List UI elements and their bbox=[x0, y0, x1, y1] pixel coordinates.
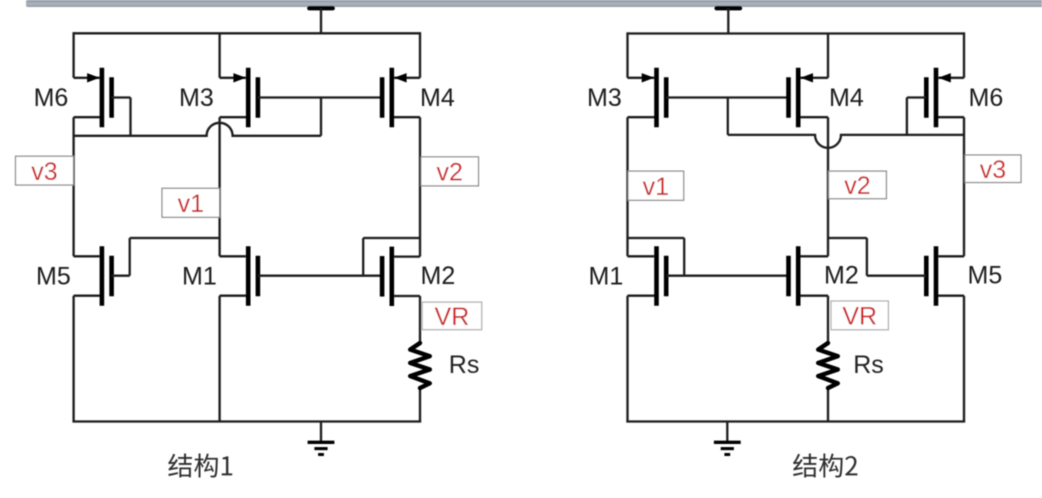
svg-text:M3: M3 bbox=[179, 84, 214, 112]
svg-text:M3: M3 bbox=[587, 84, 622, 112]
svg-text:M6: M6 bbox=[34, 84, 69, 112]
svg-text:v2: v2 bbox=[844, 172, 870, 200]
svg-text:M2: M2 bbox=[824, 262, 859, 290]
svg-text:M5: M5 bbox=[968, 262, 1003, 290]
svg-text:M5: M5 bbox=[36, 263, 71, 291]
svg-text:VR: VR bbox=[842, 302, 877, 330]
svg-text:Rs: Rs bbox=[853, 351, 884, 379]
svg-text:M4: M4 bbox=[829, 84, 864, 112]
svg-text:v1: v1 bbox=[643, 173, 669, 201]
svg-text:v1: v1 bbox=[178, 190, 204, 218]
svg-text:M6: M6 bbox=[969, 84, 1004, 112]
svg-text:v3: v3 bbox=[31, 158, 57, 186]
svg-text:M1: M1 bbox=[589, 263, 624, 291]
svg-text:VR: VR bbox=[435, 303, 470, 331]
svg-text:M2: M2 bbox=[421, 262, 456, 290]
svg-text:M4: M4 bbox=[420, 84, 455, 112]
svg-text:v3: v3 bbox=[980, 156, 1006, 184]
svg-text:Rs: Rs bbox=[449, 351, 480, 379]
svg-text:v2: v2 bbox=[436, 159, 462, 187]
svg-text:M1: M1 bbox=[182, 263, 217, 291]
